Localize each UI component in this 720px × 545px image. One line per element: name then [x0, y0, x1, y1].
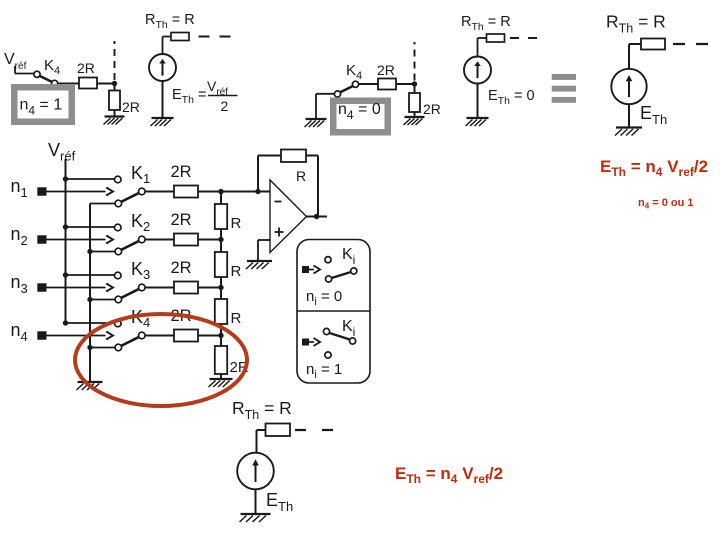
junction on ground bus row 3 — [87, 297, 92, 302]
wire non-inverting input to ground — [258, 239, 270, 241]
resistor RTh (circuit 3 Thevenin) — [641, 39, 665, 50]
legend input square (ni=0) — [302, 266, 309, 273]
switch K3 upper contact circle (Vref side) — [115, 272, 122, 279]
wire RTh to current source (bottom Thevenin) — [257, 429, 266, 431]
current source ETh (circuit 2 Thevenin) — [464, 57, 491, 84]
resistor 2R shunt (circuit 1) — [109, 91, 120, 111]
resistor R feedback — [281, 150, 306, 163]
wire K1 pole to resistor 2R row 1 — [145, 191, 174, 193]
red highlight ellipse around K4 row — [75, 314, 247, 406]
gray callout box n4 = 1 — [11, 84, 75, 125]
svg-text:2R: 2R — [377, 62, 395, 78]
junction at op-amp output — [314, 214, 319, 219]
resistor 2R ladder bottom — [215, 346, 227, 374]
dashed output wire (circuit 1 Thevenin) — [199, 36, 232, 38]
switch K1 pole circle — [139, 188, 146, 195]
current source ETh (bottom Thevenin) — [237, 453, 274, 490]
current source ETh (circuit 3 Thevenin) — [611, 69, 646, 104]
wire current source to ground (bottom Thevenin) — [255, 489, 257, 514]
wire ground bus to K2 lower contact — [90, 251, 115, 253]
wire shunt resistor to ground (circuit 2) — [414, 112, 416, 117]
resistor R ladder (top 299) — [215, 299, 227, 324]
switch K4 arm (open, to ground side, circuit 2) — [340, 86, 353, 92]
wire resistor to node A (circuit 1) — [97, 83, 115, 85]
svg-text:R: R — [231, 310, 242, 327]
resistor 2R row 4 — [174, 330, 198, 342]
switch K4 arm (to ground contact) — [121, 337, 139, 346]
resistor R ladder (top 252) — [215, 252, 227, 277]
input wire n2 with arrow — [47, 239, 106, 241]
feedback wire from resistor to output — [306, 155, 318, 157]
ground (circuit 1 shunt) — [104, 117, 125, 125]
input terminal square n4 — [37, 331, 46, 339]
ground (ladder bottom) — [209, 379, 233, 387]
ground (circuit 1 Thevenin) — [151, 118, 174, 126]
switch K2 lower contact circle (ground side) — [115, 248, 122, 255]
dashed output wire (bottom Thevenin) — [295, 429, 335, 431]
input terminal square n2 — [37, 235, 46, 243]
junction on Vref bus row 1 — [63, 176, 68, 181]
switch K4 pole circle (circuit 1) — [52, 80, 58, 86]
wire K3 pole to resistor 2R row 3 — [145, 287, 174, 289]
svg-text:R: R — [231, 263, 242, 280]
dashed wire up from node B (circuit 2) — [414, 42, 416, 81]
junction at inverting input node — [255, 189, 260, 194]
svg-text:R: R — [231, 215, 242, 232]
switch K4 contact circle (Vref side, circuit 1) — [34, 71, 40, 77]
svg-text:2R: 2R — [171, 211, 192, 229]
ground (op-amp + input) — [246, 261, 272, 269]
ground (circuit 2 switch) — [305, 119, 327, 127]
wire node B to shunt resistor (circuit 2) — [414, 84, 416, 93]
legend input square (ni=1) — [302, 339, 309, 346]
op-amp output wire — [307, 216, 328, 218]
wire ground-side contact to ground (circuit 2) — [316, 93, 334, 95]
switch K1 lower contact circle (ground side) — [115, 200, 122, 207]
wire ground bus to K3 lower contact — [90, 299, 115, 301]
switch K4 upper contact circle (Vref side) — [115, 320, 122, 327]
resistor 2R row 2 — [174, 234, 198, 246]
wire Vref to switch K4 (circuit 1) — [14, 66, 16, 74]
svg-text:2R: 2R — [171, 259, 192, 277]
switch K3 lower contact circle (ground side) — [115, 296, 122, 303]
ground (circuit 2 shunt) — [404, 117, 425, 125]
wire pole to resistor 2R (circuit 1) — [58, 83, 79, 85]
junction on ground bus row 2 — [87, 249, 92, 254]
resistor RTh (circuit 1 Thevenin) — [171, 33, 189, 41]
legend input arrow (ni=0) — [309, 269, 314, 271]
junction on ground bus row 4 — [87, 345, 92, 350]
Vref bus wire (main circuit) — [65, 159, 67, 323]
resistor R ladder (top 204) — [215, 204, 227, 229]
wire pole to resistor 2R (circuit 2) — [359, 83, 378, 85]
junction on Vref bus row 4 — [63, 320, 68, 325]
wire resistor to node B (circuit 2) — [396, 83, 415, 85]
input wire n3 with arrow — [47, 287, 106, 289]
ladder node junction row 4 — [218, 333, 223, 338]
ladder node junction row 3 — [218, 285, 223, 290]
switch K3 pole circle — [139, 284, 146, 291]
wire Vref bus to K4 upper contact — [66, 322, 115, 324]
wire Vref bus to K2 upper contact — [66, 226, 115, 228]
dashed output wire (circuit 3 Thevenin) — [673, 43, 708, 45]
ground (circuit 2 Thevenin) — [466, 118, 489, 126]
junction on Vref bus row 3 — [63, 272, 68, 277]
op-amp inverting input sign — [275, 201, 282, 203]
wire current source to ground (circuit 2 Thevenin) — [477, 84, 479, 119]
resistor 2R shunt (circuit 2) — [409, 93, 420, 112]
switch K4 arm (closed to Vref, circuit 1) — [40, 76, 52, 82]
gray callout box n4 = 0 — [330, 98, 391, 136]
legend divider wire — [297, 310, 370, 312]
legend input arrow (ni=1) — [309, 341, 314, 343]
resistor 2R row 1 — [174, 186, 198, 198]
op-amp U1 — [270, 180, 307, 253]
switch K2 pole circle — [139, 236, 146, 243]
resistor 2R row 3 — [174, 282, 198, 294]
wire ground bus to K1 lower contact — [90, 203, 115, 205]
resistor RTh (bottom Thevenin) — [266, 424, 291, 437]
ground (circuit 3 Thevenin) — [615, 128, 642, 136]
op-amp non-inverting input sign — [275, 231, 284, 233]
wire shunt resistor to ground (circuit 1) — [114, 110, 116, 117]
resistor RTh (circuit 2 Thevenin) — [487, 34, 505, 42]
feedback wire up from inverting node — [257, 156, 259, 192]
ground bus wire (main circuit) — [89, 204, 91, 383]
wire K2 pole to resistor 2R row 2 — [145, 239, 174, 241]
legend lower contact circle (ni=1) — [325, 352, 331, 358]
svg-text:R: R — [296, 168, 306, 184]
switch K4 lower contact circle (ground side) — [115, 344, 122, 351]
svg-text:2R: 2R — [77, 60, 95, 76]
wire Vref bus to K3 upper contact — [66, 274, 115, 276]
junction on Vref bus row 2 — [63, 224, 68, 229]
svg-text:2R: 2R — [171, 163, 192, 181]
input wire n4 with arrow — [47, 335, 106, 337]
switch K2 arm (to ground contact) — [121, 241, 139, 250]
wire resistor 2R row 1 to ladder node — [198, 191, 221, 193]
legend upper contact circle (ni=0) — [325, 257, 331, 263]
legend right pole circle (ni=0) — [351, 268, 357, 274]
current source ETh (circuit 1 Thevenin) — [149, 54, 176, 81]
wire RTh to current source (circuit 3 Thevenin) — [629, 43, 641, 45]
wire K4 pole to resistor 2R row 4 — [145, 335, 174, 337]
switch K1 arm (to ground contact) — [121, 193, 139, 202]
svg-text:2: 2 — [221, 98, 229, 114]
svg-text:2R: 2R — [423, 101, 441, 117]
legend right pole circle (ni=1) — [350, 338, 356, 344]
legend switch arm (ni=1) — [330, 333, 350, 340]
switch K4 pole circle — [139, 332, 146, 339]
svg-text:2R: 2R — [122, 99, 140, 115]
node A junction (circuit 1) — [112, 81, 117, 86]
switch K3 arm (to ground contact) — [121, 289, 139, 298]
legend lower contact circle (ni=0) — [326, 276, 332, 282]
wire resistor 2R row 4 to ladder node — [198, 335, 221, 337]
ground (ground bus) — [77, 382, 103, 390]
switch K4 pole circle (circuit 2) — [352, 81, 358, 87]
wire ground bus to K4 lower contact — [90, 347, 115, 349]
ground (bottom Thevenin) — [240, 514, 271, 522]
legend switch arm (ni=0) — [332, 272, 351, 278]
wire RTh to current source (circuit 2 Thevenin) — [478, 37, 487, 39]
input wire n1 with arrow — [47, 191, 106, 193]
switch K2 upper contact circle (Vref side) — [115, 224, 122, 231]
wire Vref bus to K1 upper contact — [66, 178, 115, 180]
ladder bus wire (main circuit) — [220, 192, 222, 380]
wire RTh to current source (circuit 1 Thevenin) — [163, 36, 172, 38]
wire node A to shunt resistor (circuit 1) — [114, 84, 116, 91]
switch K4 contact circle (ground side, circuit 2) — [334, 91, 340, 97]
resistor 2R series (circuit 1) — [79, 78, 97, 89]
ladder node junction row 1 — [218, 189, 223, 194]
equivalence symbol (three gray bars) — [552, 74, 576, 103]
input terminal square n1 — [37, 187, 46, 195]
dashed output wire (circuit 2 Thevenin) — [510, 37, 537, 39]
wire resistor 2R row 3 to ladder node — [198, 287, 221, 289]
node B junction (circuit 2) — [412, 81, 417, 86]
wire current source to ground (circuit 1 Thevenin) — [162, 81, 164, 118]
resistor 2R series (circuit 2) — [378, 79, 396, 90]
fraction bar Vref/2 — [208, 95, 238, 97]
legend box (switch positions) — [297, 240, 370, 384]
wire current source to ground (circuit 3 Thevenin) — [628, 104, 630, 128]
wire ladder top node to op-amp inverting input — [221, 191, 270, 193]
ladder node junction row 2 — [218, 237, 223, 242]
dashed wire up from node A (circuit 1) — [114, 41, 116, 80]
input terminal square n3 — [37, 283, 46, 291]
legend upper contact circle (ni=1) — [323, 328, 329, 334]
switch K1 upper contact circle (Vref side) — [115, 176, 122, 183]
wire resistor 2R row 2 to ladder node — [198, 239, 221, 241]
